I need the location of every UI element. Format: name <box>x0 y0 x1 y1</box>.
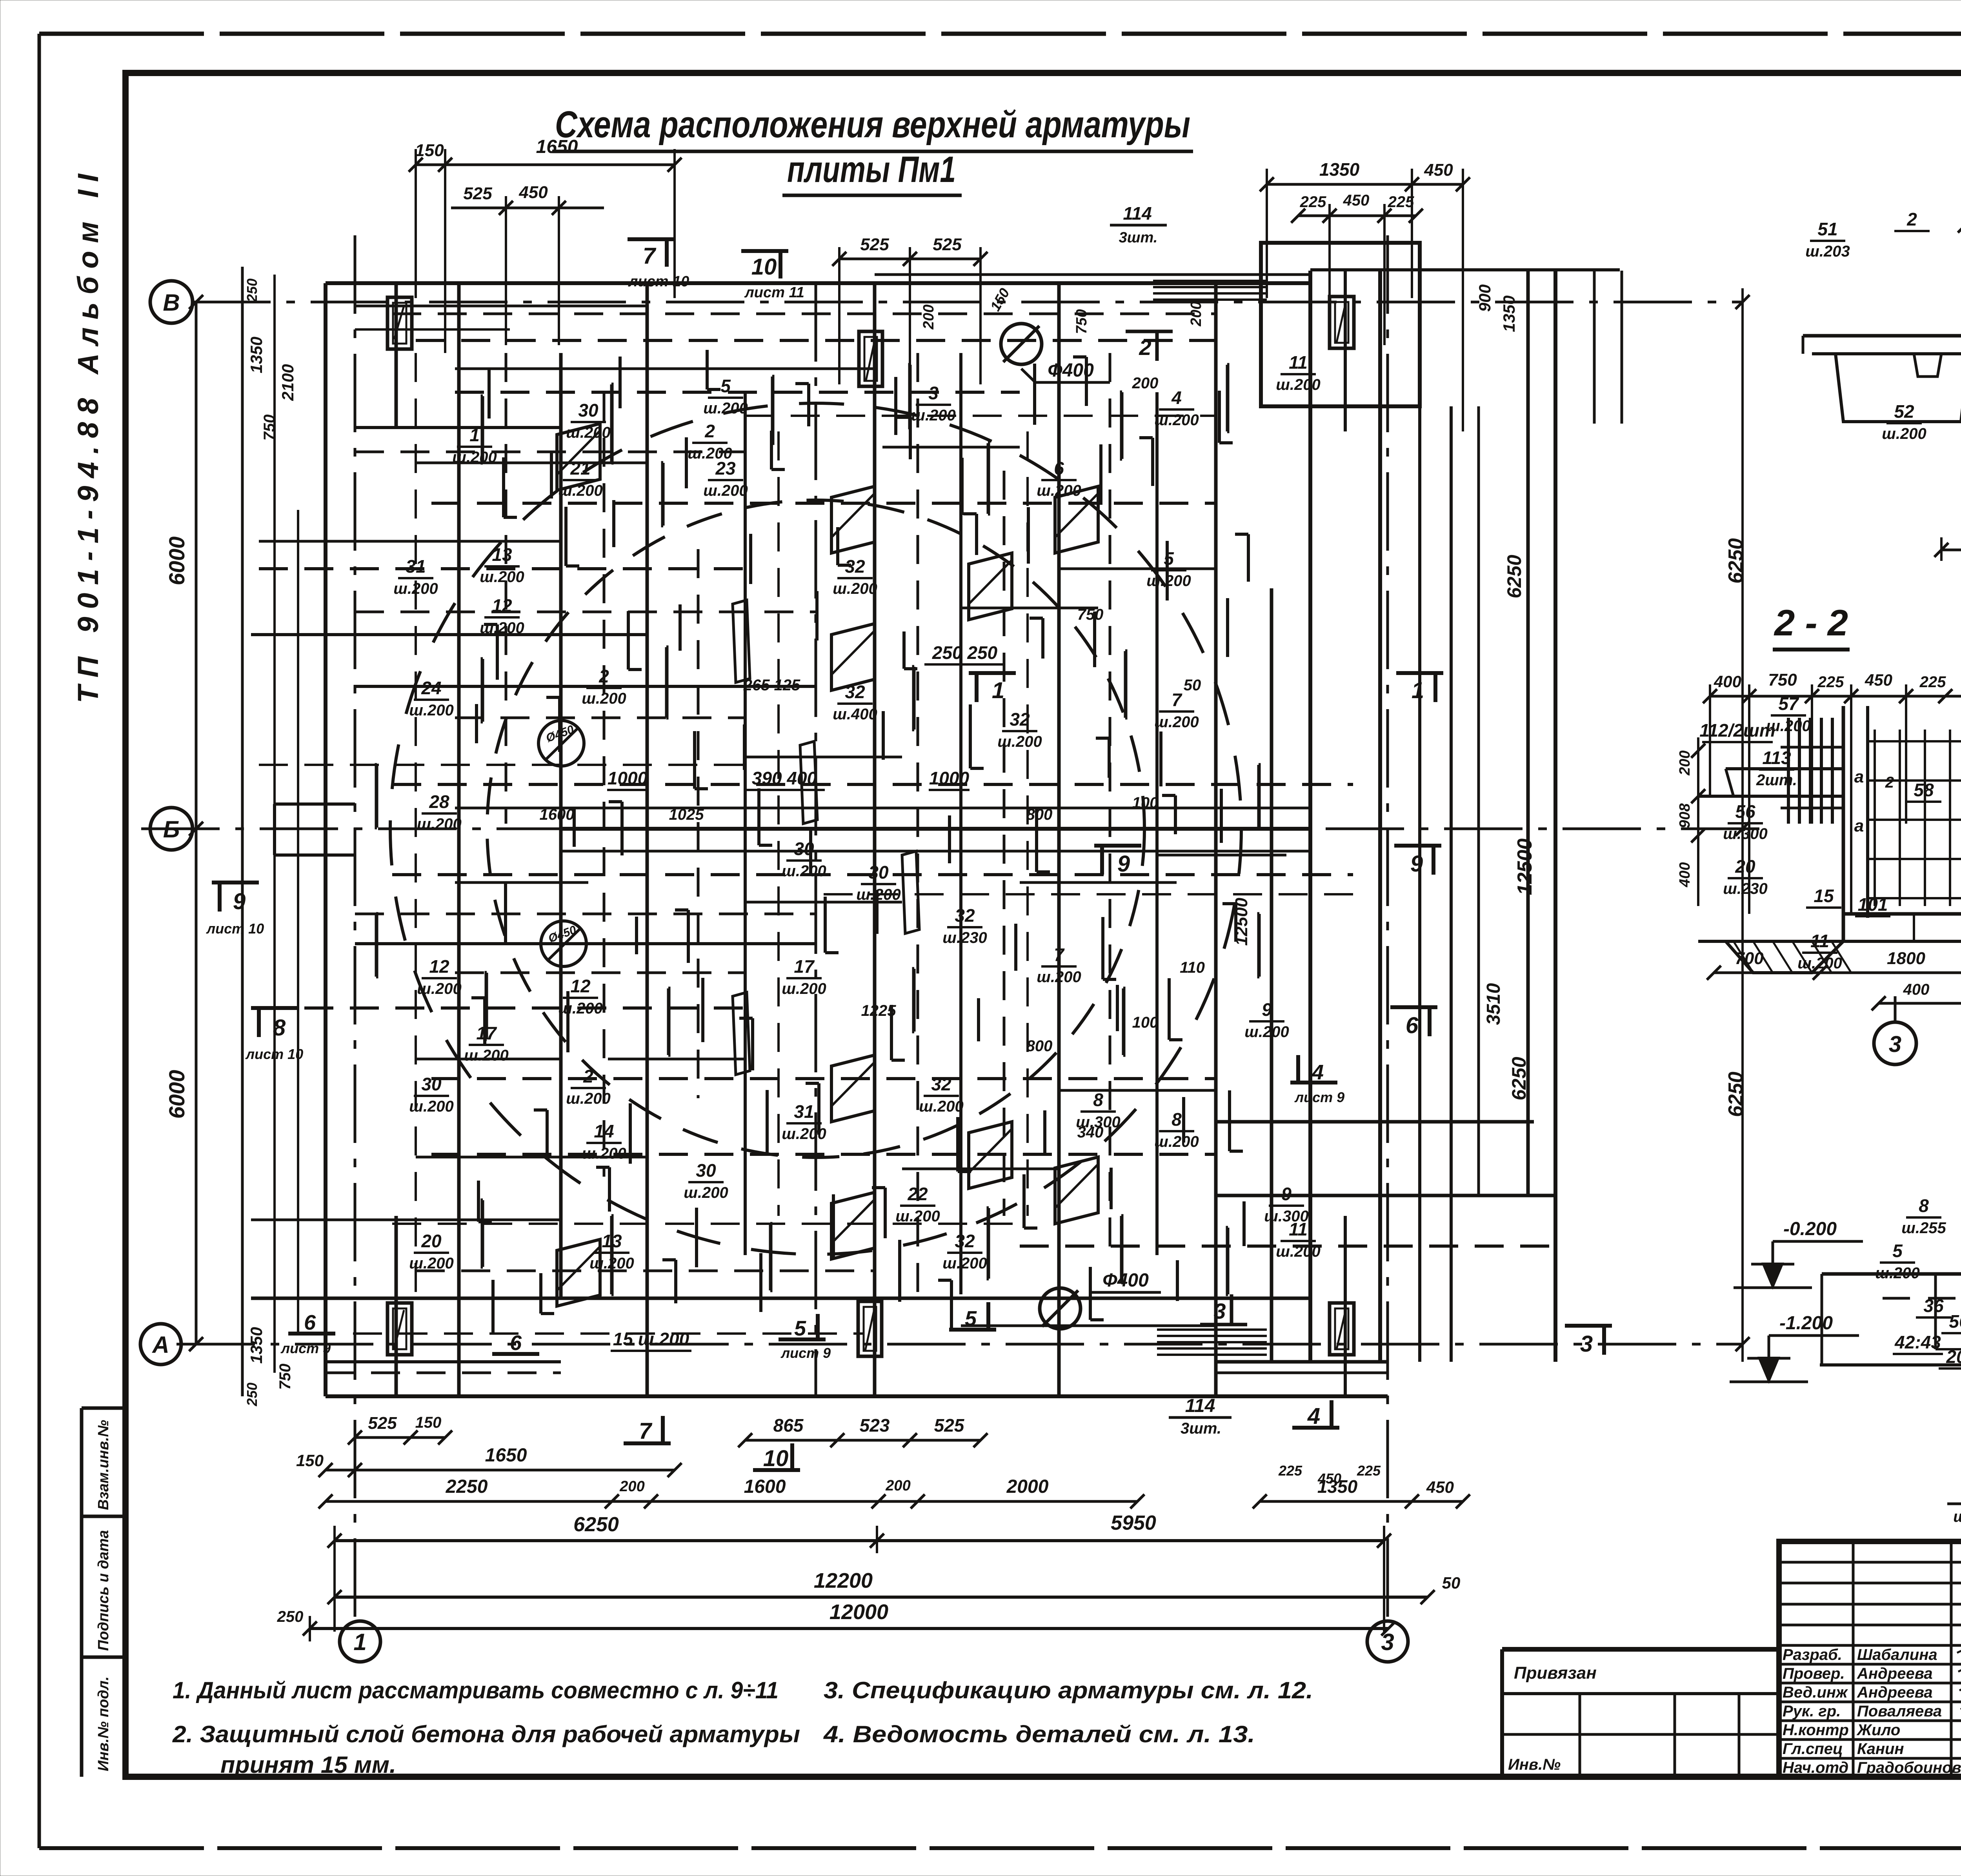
svg-text:36: 36 <box>1923 1296 1944 1316</box>
svg-text:250: 250 <box>277 1608 304 1625</box>
svg-text:5: 5 <box>794 1317 806 1340</box>
section flag 8 left <box>251 1006 298 1010</box>
svg-text:450: 450 <box>1424 160 1453 180</box>
section flag 10 bottom <box>753 1468 800 1472</box>
opening top-right <box>1330 297 1354 348</box>
plan horizontal rebar lines <box>392 313 1216 315</box>
svg-text:31: 31 <box>794 1101 814 1122</box>
svg-text:2 - 2: 2 - 2 <box>1774 602 1848 643</box>
bottom dim 12200 <box>335 1596 1428 1599</box>
svg-text:4. Ведомость деталей см. л.: 4. Ведомость деталей см. л. 13. <box>823 1721 1255 1747</box>
svg-text:12500: 12500 <box>1513 839 1536 895</box>
section 2-2 bottom dims <box>1714 972 1820 974</box>
svg-text:3: 3 <box>1213 1299 1226 1323</box>
svg-text:5: 5 <box>720 376 731 396</box>
svg-text:750: 750 <box>1073 309 1090 334</box>
svg-text:56: 56 <box>1949 1311 1961 1332</box>
svg-text:8: 8 <box>273 1015 286 1041</box>
svg-text:20: 20 <box>1735 856 1755 877</box>
section flag 6b bottom <box>492 1352 539 1356</box>
svg-text:900: 900 <box>1475 284 1494 312</box>
svg-text:340: 340 <box>1077 1124 1104 1141</box>
svg-text:200: 200 <box>885 1478 910 1494</box>
svg-text:Андреева: Андреева <box>1857 1684 1933 1701</box>
opening bottom-right <box>1330 1303 1354 1355</box>
section flag 5 bottom <box>779 1337 826 1341</box>
section flag 1 left <box>969 671 1016 675</box>
extra top edge lines <box>875 273 1310 276</box>
svg-text:32: 32 <box>955 1231 975 1251</box>
svg-text:57: 57 <box>1778 693 1799 714</box>
svg-text:ш.230: ш.230 <box>942 929 987 946</box>
svg-text:20: 20 <box>1946 1346 1961 1367</box>
svg-text:лист 9: лист 9 <box>1294 1089 1344 1105</box>
svg-text:Градобоинов: Градобоинов <box>1857 1759 1961 1776</box>
svg-text:14: 14 <box>594 1121 614 1141</box>
svg-text:ш.200: ш.200 <box>582 690 626 707</box>
svg-text:114: 114 <box>1123 203 1151 224</box>
bottom dim 865+523+525 <box>745 1439 980 1442</box>
svg-text:Жило: Жило <box>1856 1721 1900 1739</box>
section flag 9 mid <box>1094 844 1141 848</box>
svg-text:ш.200: ш.200 <box>566 1090 610 1107</box>
section flag 3 right <box>1565 1324 1612 1328</box>
svg-text:ш.200: ш.200 <box>1276 376 1320 393</box>
svg-text:9: 9 <box>233 889 246 914</box>
svg-text:ш.203: ш.203 <box>1805 243 1850 260</box>
svg-text:Нач.отд: Нач.отд <box>1783 1759 1848 1776</box>
svg-text:31: 31 <box>406 556 426 577</box>
svg-text:1650: 1650 <box>536 136 578 157</box>
svg-text:50: 50 <box>1184 677 1201 694</box>
svg-text:100: 100 <box>1132 794 1159 812</box>
svg-text:2: 2 <box>598 666 609 686</box>
svg-text:ш.200: ш.200 <box>1797 955 1842 972</box>
svg-text:ш.200: ш.200 <box>417 980 461 997</box>
svg-text:525: 525 <box>368 1414 397 1433</box>
section flag 5b bottom-right <box>949 1328 996 1332</box>
svg-text:22: 22 <box>907 1184 928 1204</box>
svg-text:ш.400: ш.400 <box>833 706 877 723</box>
section flag 4 bottom-right <box>1292 1426 1339 1430</box>
svg-text:6: 6 <box>1054 458 1064 479</box>
bottom dim 525+150 <box>355 1436 445 1439</box>
svg-text:Привязан: Привязан <box>1514 1663 1597 1683</box>
svg-text:800: 800 <box>1026 1037 1053 1055</box>
svg-text:ш.200: ш.200 <box>1953 1508 1961 1525</box>
svg-text:2000: 2000 <box>1006 1476 1049 1497</box>
svg-text:ш.200: ш.200 <box>558 1000 602 1017</box>
top dim chain 525+450 <box>451 207 604 209</box>
flag 2 near F400 <box>1126 330 1173 333</box>
svg-text:1350: 1350 <box>1500 295 1518 332</box>
outer sheet border <box>39 32 1961 36</box>
svg-text:5950: 5950 <box>1111 1512 1156 1534</box>
axis line B2 horizontal <box>141 828 1761 830</box>
svg-text:150: 150 <box>296 1451 324 1470</box>
svg-text:2: 2 <box>583 1066 593 1086</box>
svg-text:450: 450 <box>1865 671 1892 689</box>
section flag 4 mid-right <box>1290 1081 1337 1084</box>
top right dim 1350+450 <box>1267 183 1463 186</box>
rebar bracket symbols <box>482 396 483 463</box>
svg-text:7: 7 <box>1054 944 1065 965</box>
svg-text:525: 525 <box>860 235 889 254</box>
svg-text:ш.300: ш.300 <box>1723 825 1767 842</box>
svg-text:лист 10: лист 10 <box>245 1046 303 1062</box>
svg-text:114: 114 <box>1185 1396 1215 1416</box>
svg-text:ш.200: ш.200 <box>997 733 1042 750</box>
section flag 7 bottom <box>624 1441 671 1445</box>
svg-text:225: 225 <box>1278 1463 1302 1479</box>
svg-text:лист 9: лист 9 <box>280 1340 331 1356</box>
large dashed circle inner <box>487 500 1144 1157</box>
svg-text:390 400: 390 400 <box>752 768 817 788</box>
svg-text:12200: 12200 <box>814 1569 873 1592</box>
svg-text:лист 9: лист 9 <box>780 1345 831 1361</box>
svg-text:ш.200: ш.200 <box>1276 1243 1320 1260</box>
svg-text:Подпись и дата: Подпись и дата <box>95 1530 112 1651</box>
section flag 1 right <box>1396 671 1443 675</box>
svg-text:250: 250 <box>244 278 260 302</box>
small circle D450 upper <box>538 721 584 766</box>
svg-text:11: 11 <box>1289 352 1308 373</box>
svg-text:ш.200: ш.200 <box>942 1255 987 1272</box>
svg-text:225: 225 <box>1817 673 1844 691</box>
svg-text:9: 9 <box>1117 851 1130 877</box>
svg-text:Гл.спец: Гл.спец <box>1783 1740 1843 1758</box>
svg-text:1650: 1650 <box>485 1445 527 1466</box>
svg-text:3. Спецификацию арматуры см.: 3. Спецификацию арматуры см. л. 12. <box>824 1677 1313 1703</box>
title block small grid left <box>1779 1561 1961 1564</box>
section 2-2 top dims <box>1710 695 1961 698</box>
bottom dim 1350+450 right <box>1260 1500 1463 1503</box>
svg-text:ш.200: ш.200 <box>409 1255 453 1272</box>
svg-text:30: 30 <box>696 1160 716 1181</box>
svg-text:Вед.инж: Вед.инж <box>1783 1684 1848 1701</box>
section flag 6 bottom-left <box>288 1332 335 1336</box>
svg-text:7: 7 <box>643 243 657 269</box>
title block signature rows <box>1779 1663 1961 1666</box>
svg-text:ш.200: ш.200 <box>833 580 877 597</box>
axis circle 3 below 2-2 <box>1874 1022 1916 1064</box>
svg-text:225: 225 <box>1300 193 1326 211</box>
plan slab outline <box>326 281 1310 285</box>
axis circle 1 <box>340 1621 380 1662</box>
svg-text:750: 750 <box>1768 670 1797 690</box>
svg-text:200: 200 <box>1677 750 1693 775</box>
title block outline <box>1779 1541 1961 1777</box>
svg-text:ш.200: ш.200 <box>393 580 438 597</box>
svg-text:ш.200: ш.200 <box>1154 713 1199 731</box>
svg-text:200: 200 <box>920 304 937 329</box>
svg-text:32: 32 <box>845 682 865 702</box>
svg-text:200: 200 <box>1132 375 1159 392</box>
svg-text:ш.200: ш.200 <box>480 568 524 586</box>
svg-text:1350: 1350 <box>247 337 266 373</box>
svg-text:ш.200: ш.200 <box>589 1255 634 1272</box>
svg-text:1. Данный лист рассматривать: 1. Данный лист рассматривать совместно с… <box>173 1677 779 1703</box>
circle F400 upper with slash <box>1001 324 1042 364</box>
narrow wedge plates center <box>733 600 750 682</box>
svg-text:В: В <box>163 289 180 316</box>
svg-text:лист 10: лист 10 <box>628 273 689 290</box>
svg-text:3510: 3510 <box>1483 983 1504 1025</box>
axis circle А <box>140 1324 181 1365</box>
svg-text:450: 450 <box>1343 192 1370 209</box>
svg-text:12: 12 <box>570 976 591 996</box>
top right dim 225+450+225 <box>1298 215 1416 217</box>
svg-text:4: 4 <box>1307 1403 1320 1429</box>
svg-text:2: 2 <box>1906 209 1917 229</box>
axis line 1 vertical <box>354 235 357 1619</box>
svg-text:400: 400 <box>1714 672 1741 691</box>
svg-text:225: 225 <box>1919 673 1946 691</box>
svg-text:3: 3 <box>928 383 939 403</box>
svg-text:200: 200 <box>619 1478 644 1495</box>
left dim chain 6000+6000 <box>195 302 198 1344</box>
svg-text:150: 150 <box>415 1414 442 1431</box>
svg-text:225: 225 <box>1357 1463 1381 1479</box>
svg-text:плиты Пм1: плиты Пм1 <box>787 149 956 190</box>
svg-text:10: 10 <box>751 254 777 280</box>
plan left notch at axis B2 <box>275 802 355 806</box>
svg-text:200: 200 <box>1188 301 1204 326</box>
svg-text:ш.200: ш.200 <box>703 400 748 417</box>
svg-text:а: а <box>1854 816 1864 835</box>
section 1-1 bottom dim 2050+50 <box>1941 549 1961 551</box>
svg-text:-0.200: -0.200 <box>1783 1219 1837 1239</box>
axis circle B <box>150 281 193 323</box>
section flag 10 top <box>741 249 788 253</box>
svg-text:9: 9 <box>1262 999 1272 1020</box>
svg-text:Инв.№ подл.: Инв.№ подл. <box>95 1676 112 1771</box>
svg-text:13: 13 <box>602 1231 622 1251</box>
svg-text:ш.200: ш.200 <box>782 1125 826 1143</box>
svg-text:5: 5 <box>965 1307 977 1330</box>
svg-text:28: 28 <box>429 792 449 812</box>
section flag 9 right <box>1394 844 1441 848</box>
svg-text:Инв.№: Инв.№ <box>1508 1756 1561 1773</box>
svg-text:2: 2 <box>1139 335 1151 360</box>
svg-text:ш.200: ш.200 <box>417 815 461 833</box>
svg-text:30: 30 <box>868 862 889 883</box>
svg-text:Шабалина: Шабалина <box>1857 1646 1937 1663</box>
svg-text:6250: 6250 <box>1503 555 1525 598</box>
svg-text:Андреева: Андреева <box>1857 1665 1933 1682</box>
svg-text:ш.200: ш.200 <box>480 619 524 637</box>
svg-text:1000: 1000 <box>929 768 970 788</box>
svg-text:30: 30 <box>578 400 598 420</box>
svg-text:1025: 1025 <box>669 806 704 823</box>
svg-text:150: 150 <box>415 141 444 160</box>
svg-text:ш.200: ш.200 <box>684 1184 728 1201</box>
svg-text:3шт.: 3шт. <box>1181 1420 1221 1437</box>
svg-text:1350: 1350 <box>247 1327 266 1363</box>
svg-text:4: 4 <box>1312 1061 1324 1084</box>
svg-text:100: 100 <box>1132 1014 1159 1031</box>
svg-text:Провер.: Провер. <box>1783 1665 1845 1682</box>
circle F400 lower with slash <box>1040 1288 1081 1329</box>
svg-text:15: 15 <box>1814 886 1834 906</box>
svg-text:ш.200: ш.200 <box>703 482 748 499</box>
svg-text:ш.200: ш.200 <box>1154 1133 1199 1150</box>
svg-text:5: 5 <box>1892 1241 1903 1261</box>
svg-text:32: 32 <box>955 905 975 926</box>
svg-text:7: 7 <box>1172 690 1182 710</box>
svg-text:ш.200: ш.200 <box>911 407 955 424</box>
title block left extension <box>1502 1647 1779 1652</box>
section flag 7 top <box>628 237 675 241</box>
svg-text:800: 800 <box>1026 806 1053 823</box>
svg-text:2: 2 <box>1885 774 1894 791</box>
svg-text:2. Защитный слой бетона для ра: 2. Защитный слой бетона для рабочей арма… <box>172 1721 800 1747</box>
axis line A horizontal <box>176 1343 1741 1346</box>
svg-text:20: 20 <box>421 1231 442 1251</box>
svg-text:4: 4 <box>1171 388 1182 408</box>
bottom dim 2250+1600+2000 <box>326 1500 1137 1503</box>
svg-text:ш.200: ш.200 <box>409 702 453 719</box>
section 2-2 left rotated dims <box>1697 737 1699 906</box>
axis line B horizontal <box>192 301 1741 304</box>
opening bottom-left <box>387 1303 412 1355</box>
svg-text:ш.300: ш.300 <box>1264 1208 1308 1225</box>
svg-text:Разраб.: Разраб. <box>1783 1646 1842 1663</box>
svg-text:лист 11: лист 11 <box>744 284 804 301</box>
svg-text:13: 13 <box>492 544 512 565</box>
bottom dim 150+1650 <box>326 1469 675 1472</box>
svg-text:6: 6 <box>304 1311 316 1334</box>
svg-text:2шт.: 2шт. <box>1756 772 1797 789</box>
svg-text:5: 5 <box>1164 548 1174 569</box>
section 1-1 slab left <box>1803 334 1961 338</box>
svg-text:ш.200: ш.200 <box>566 424 610 441</box>
svg-text:6000: 6000 <box>164 537 189 586</box>
svg-text:24: 24 <box>421 678 441 698</box>
svg-text:2: 2 <box>704 421 715 441</box>
plan top-right block <box>1261 243 1420 406</box>
svg-text:Рук. гр.: Рук. гр. <box>1783 1703 1841 1720</box>
svg-text:50: 50 <box>1442 1574 1461 1592</box>
svg-text:ш.200: ш.200 <box>1882 425 1926 442</box>
svg-text:9: 9 <box>1410 851 1423 877</box>
svg-text:6250: 6250 <box>1725 538 1747 584</box>
svg-text:700: 700 <box>1735 949 1764 968</box>
svg-text:6: 6 <box>1406 1013 1419 1038</box>
left margin stamp boxes <box>80 1408 84 1777</box>
axis circle Б <box>150 808 193 850</box>
plan vertical structure lines <box>395 283 398 428</box>
svg-text:ш.200: ш.200 <box>782 862 826 880</box>
svg-text:17: 17 <box>794 956 815 977</box>
svg-text:525: 525 <box>934 1415 965 1436</box>
svg-text:51: 51 <box>1817 219 1837 239</box>
svg-text:1: 1 <box>469 425 480 445</box>
svg-text:1800: 1800 <box>1887 949 1925 968</box>
svg-text:ш.255: ш.255 <box>1901 1219 1946 1237</box>
svg-text:110: 110 <box>1180 959 1205 976</box>
svg-text:23: 23 <box>715 458 736 479</box>
svg-text:принят 15 мм.: принят 15 мм. <box>220 1752 396 1778</box>
svg-text:Ф400: Ф400 <box>1102 1270 1149 1291</box>
svg-text:1: 1 <box>1412 678 1424 703</box>
large dashed circle outer <box>390 403 1241 1254</box>
svg-text:750: 750 <box>277 1364 294 1390</box>
svg-text:6250: 6250 <box>1508 1057 1530 1100</box>
svg-text:Н.контр: Н.контр <box>1783 1721 1849 1739</box>
svg-text:ш.200: ш.200 <box>782 980 826 997</box>
svg-text:525: 525 <box>933 235 962 254</box>
svg-text:42:43: 42:43 <box>1894 1332 1941 1352</box>
svg-text:400: 400 <box>1677 862 1693 887</box>
opening bottom-center <box>858 1301 882 1356</box>
svg-text:1000: 1000 <box>608 768 648 788</box>
section flag 6 right <box>1390 1005 1437 1009</box>
svg-text:7: 7 <box>639 1418 653 1444</box>
svg-text:32: 32 <box>1010 709 1030 730</box>
section flag 9 left <box>212 881 259 884</box>
svg-text:6250: 6250 <box>1725 1072 1747 1117</box>
section 2-2 body <box>1842 706 1845 941</box>
section 3-3 body main lines <box>1822 1272 1961 1276</box>
svg-text:17: 17 <box>476 1023 497 1043</box>
svg-text:523: 523 <box>860 1415 890 1436</box>
svg-text:Схема расположения верхней: Схема расположения верхней арматуры <box>555 104 1190 146</box>
svg-text:ТП 901-1-94.88 Альбом II: ТП 901-1-94.88 Альбом II <box>72 166 104 703</box>
svg-text:ш.200: ш.200 <box>1037 482 1081 499</box>
top center dim 525+525 <box>839 258 980 260</box>
svg-text:ш.200: ш.200 <box>582 1145 626 1162</box>
svg-text:2250: 2250 <box>446 1476 488 1497</box>
svg-text:ш.200: ш.200 <box>558 482 602 499</box>
svg-text:112/2шт: 112/2шт <box>1699 720 1775 741</box>
svg-text:750: 750 <box>261 415 278 441</box>
svg-text:450: 450 <box>1317 1470 1341 1487</box>
svg-text:ш.200: ш.200 <box>409 1098 453 1115</box>
svg-text:1: 1 <box>353 1629 366 1655</box>
svg-text:ш.230: ш.230 <box>1723 880 1767 897</box>
svg-text:250 250: 250 250 <box>932 642 998 663</box>
svg-text:1600: 1600 <box>744 1476 786 1497</box>
top dim chain 150+1650 <box>416 164 675 166</box>
svg-text:Б: Б <box>163 816 180 842</box>
left dim chain small <box>273 275 276 1373</box>
svg-text:32: 32 <box>931 1074 951 1094</box>
top center hatch lines <box>1153 273 1267 276</box>
svg-text:2100: 2100 <box>278 364 297 401</box>
svg-text:11: 11 <box>1810 931 1829 951</box>
svg-text:ш.200: ш.200 <box>919 1098 963 1115</box>
svg-text:ш.200: ш.200 <box>1154 411 1199 429</box>
section 2-2 left bar cluster <box>1787 718 1790 824</box>
svg-text:525: 525 <box>463 184 492 203</box>
axis line 3 vertical <box>1386 235 1389 1619</box>
section 2-2 inner rebar grid <box>1874 730 1876 906</box>
svg-text:12: 12 <box>492 595 512 616</box>
svg-text:58: 58 <box>1914 780 1934 800</box>
svg-text:15 ш.200: 15 ш.200 <box>613 1329 689 1349</box>
svg-text:113: 113 <box>1762 748 1791 768</box>
svg-text:450: 450 <box>1426 1478 1454 1496</box>
rebar hook plates <box>831 486 875 553</box>
svg-text:250: 250 <box>244 1383 260 1407</box>
svg-text:56: 56 <box>1735 801 1755 822</box>
svg-text:-1.200: -1.200 <box>1779 1313 1833 1334</box>
svg-text:8: 8 <box>1172 1109 1182 1130</box>
svg-text:Поваляева: Поваляева <box>1857 1703 1942 1720</box>
small circle D450 lower <box>541 921 586 966</box>
svg-text:3: 3 <box>1889 1032 1901 1057</box>
